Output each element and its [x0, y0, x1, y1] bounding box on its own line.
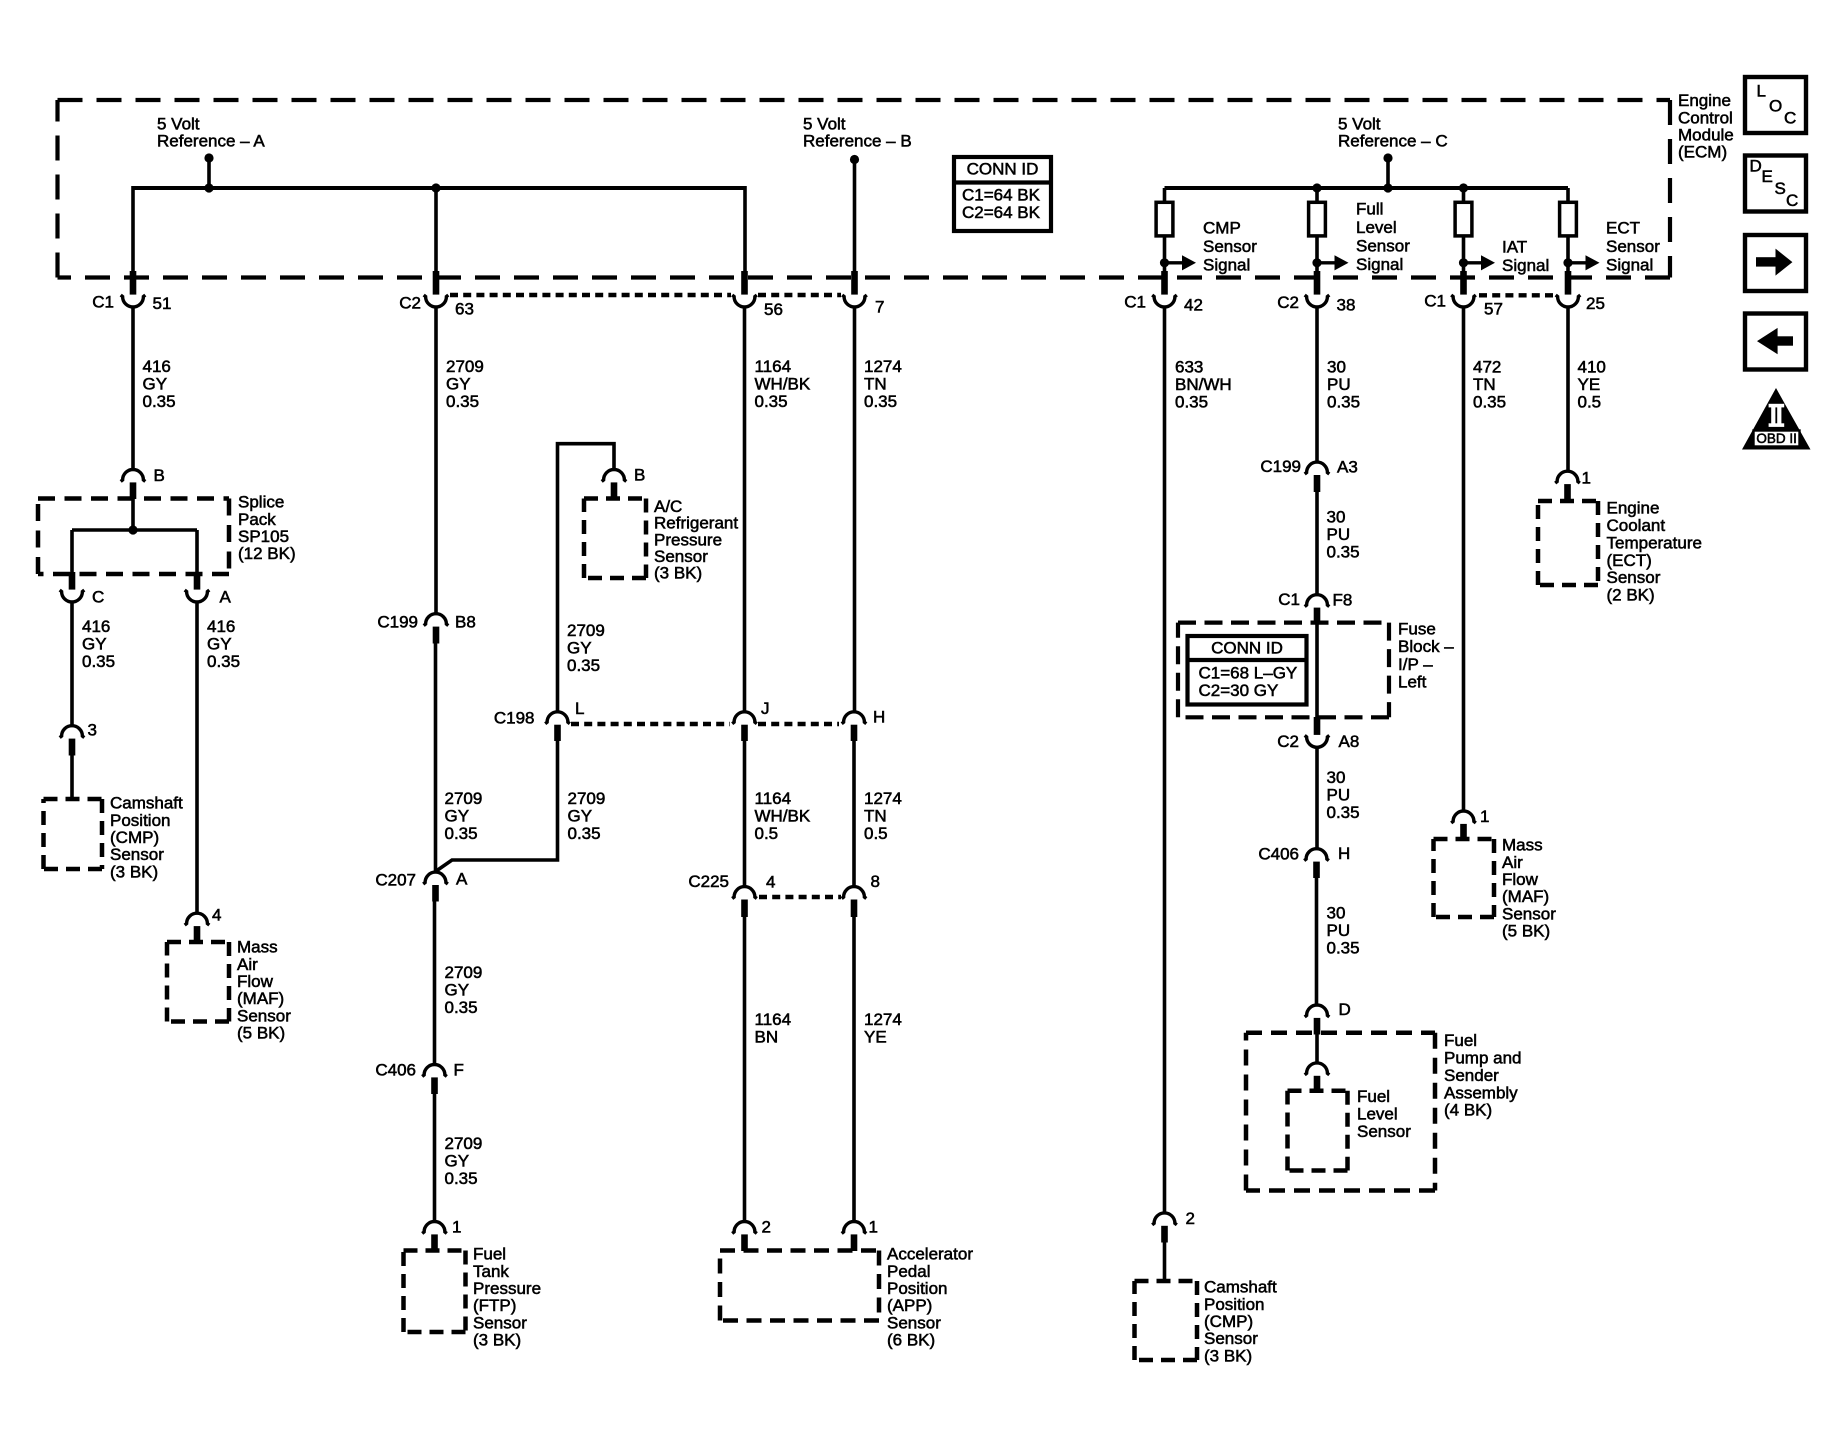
- connector C199 terminal A3: [1305, 462, 1330, 474]
- svg-text:4: 4: [766, 873, 775, 892]
- svg-text:0.35: 0.35: [1175, 393, 1208, 412]
- svg-text:C1: C1: [92, 293, 114, 312]
- svg-text:D: D: [1750, 157, 1762, 176]
- svg-text:Sender: Sender: [1444, 1066, 1499, 1085]
- svg-text:PU: PU: [1327, 525, 1351, 544]
- svg-text:C198: C198: [494, 709, 535, 728]
- Accelerator Pedal Position (APP) Sensor box: [720, 1248, 879, 1253]
- connector C406 terminal F: [422, 1065, 447, 1077]
- svg-text:Signal: Signal: [1606, 256, 1653, 275]
- connector terminal 56: [741, 271, 748, 295]
- svg-text:TN: TN: [864, 375, 887, 394]
- OBD II triangle icon: [1742, 388, 1811, 450]
- connector C225 terminal 8: [842, 887, 867, 899]
- signal tap arrow: [1160, 258, 1169, 267]
- svg-text:PU: PU: [1327, 786, 1351, 805]
- svg-text:(3 BK): (3 BK): [110, 862, 158, 881]
- svg-text:0.35: 0.35: [82, 652, 115, 671]
- wire 1274 YE (C225 8 to APP 1): [852, 916, 856, 1222]
- svg-text:TN: TN: [1473, 375, 1496, 394]
- svg-text:C1: C1: [1124, 293, 1146, 312]
- wire below terminal box: [1163, 236, 1167, 272]
- svg-text:CMP: CMP: [1203, 219, 1241, 238]
- svg-text:H: H: [1338, 844, 1350, 863]
- Fuse Block - I/P - Left dashed box: [1178, 620, 1389, 624]
- svg-text:BN/WH: BN/WH: [1175, 375, 1232, 394]
- connector C198 terminal H: [842, 712, 867, 724]
- svg-text:D: D: [1339, 1000, 1351, 1019]
- wire inside fuel pump assembly: [1315, 1034, 1319, 1064]
- svg-text:Air: Air: [1502, 853, 1523, 872]
- svg-text:GY: GY: [207, 635, 232, 654]
- svg-text:Air: Air: [237, 955, 258, 974]
- svg-text:0.35: 0.35: [446, 392, 479, 411]
- svg-text:Mass: Mass: [237, 938, 278, 957]
- svg-text:GY: GY: [568, 807, 593, 826]
- svg-text:2709: 2709: [446, 357, 484, 376]
- connector terminal 1 (FTP sensor): [422, 1222, 447, 1234]
- ECM pin stub: [1314, 271, 1321, 295]
- svg-text:C406: C406: [375, 1061, 416, 1080]
- svg-text:2709: 2709: [445, 789, 483, 808]
- wire: bus to terminal box x=1463.5: [1462, 188, 1466, 203]
- svg-text:Control: Control: [1678, 108, 1733, 127]
- svg-text:Sensor: Sensor: [1357, 1122, 1411, 1141]
- svg-text:Camshaft: Camshaft: [1204, 1278, 1277, 1297]
- svg-text:2709: 2709: [567, 621, 605, 640]
- svg-text:(MAF): (MAF): [237, 989, 284, 1008]
- svg-text:TN: TN: [864, 807, 887, 826]
- svg-text:(5 BK): (5 BK): [1502, 922, 1550, 941]
- svg-text:Level: Level: [1356, 218, 1397, 237]
- connector C198 terminal L: [545, 712, 570, 724]
- Fuel Pump and Sender Assembly box: [1246, 1031, 1435, 1036]
- svg-text:57: 57: [1484, 300, 1503, 319]
- svg-text:S: S: [1775, 179, 1786, 198]
- wire branch to A/C sensor: [558, 444, 615, 712]
- svg-text:Signal: Signal: [1502, 256, 1549, 275]
- connector C1 terminal F8 (fuse block): [1305, 595, 1330, 607]
- node: 5V ref A stub: [204, 153, 213, 162]
- svg-text:416: 416: [143, 357, 171, 376]
- svg-text:CONN ID: CONN ID: [1211, 639, 1283, 658]
- svg-text:Reference – A: Reference – A: [157, 132, 265, 151]
- CONN ID table for ECM connectors: [954, 157, 1051, 231]
- svg-text:Block –: Block –: [1398, 637, 1454, 656]
- ECM internal terminal box: [1156, 202, 1173, 236]
- connector C2 terminal 63: [433, 271, 440, 295]
- svg-text:(CMP): (CMP): [1204, 1312, 1253, 1331]
- svg-text:Reference – C: Reference – C: [1338, 132, 1448, 151]
- svg-text:F: F: [454, 1061, 464, 1080]
- connector C1 terminal 51: [130, 271, 137, 295]
- Camshaft Position (CMP) Sensor box (left): [44, 797, 103, 802]
- wire: ECM to C2 pin 63: [434, 186, 438, 272]
- svg-text:C406: C406: [1258, 845, 1299, 864]
- connector frame dashes 57-25: [1479, 293, 1553, 297]
- wire 472 TN 0.35 (pin 57 to MAF 1): [1462, 307, 1466, 812]
- svg-text:0.35: 0.35: [1327, 803, 1360, 822]
- connector terminal 3 (CMP sensor): [60, 726, 85, 738]
- svg-text:C2: C2: [1277, 293, 1299, 312]
- svg-text:Sensor: Sensor: [1607, 568, 1661, 587]
- svg-text:PU: PU: [1327, 375, 1351, 394]
- svg-text:C199: C199: [377, 613, 418, 632]
- splice terminal C: [69, 572, 76, 590]
- svg-text:0.35: 0.35: [864, 392, 897, 411]
- junction at C2 column: [431, 183, 440, 192]
- svg-text:0.35: 0.35: [755, 392, 788, 411]
- wire from C198 L down and over to C207 A: [436, 740, 558, 872]
- connector C198 terminal J: [732, 712, 757, 724]
- svg-text:C2=30 GY: C2=30 GY: [1199, 681, 1279, 700]
- signal tap arrow: [1459, 258, 1468, 267]
- svg-text:2: 2: [1186, 1209, 1195, 1228]
- connector terminal 7: [851, 271, 858, 295]
- svg-text:C: C: [92, 588, 104, 607]
- wire: ECM bus corner to pin 56: [743, 186, 747, 272]
- svg-text:A8: A8: [1339, 732, 1360, 751]
- svg-text:0.5: 0.5: [864, 824, 888, 843]
- svg-text:Tank: Tank: [473, 1262, 509, 1281]
- svg-text:0.35: 0.35: [207, 652, 240, 671]
- svg-text:Signal: Signal: [1203, 256, 1250, 275]
- wire 1274 TN 0.5 (H to C225 8): [852, 740, 856, 887]
- Engine Coolant Temperature (ECT) Sensor box: [1538, 499, 1598, 504]
- wire: bus to terminal box x=1164.5: [1163, 188, 1167, 203]
- wire 30 PU 0.35 (pin 38 to C199 A3): [1315, 307, 1319, 463]
- svg-text:A: A: [456, 870, 468, 889]
- splice terminal A: [194, 572, 201, 590]
- svg-text:30: 30: [1327, 508, 1346, 527]
- svg-text:2709: 2709: [445, 1134, 483, 1153]
- svg-text:0.5: 0.5: [755, 824, 779, 843]
- wire 2709 GY 0.35 (C207 A to C406 F): [433, 901, 437, 1065]
- wire (C199 B8 to C207 A): [434, 643, 438, 872]
- svg-text:YE: YE: [1578, 375, 1601, 394]
- LOC icon box: [1745, 77, 1806, 133]
- wire 30 PU 0.35 (A3 to fuse block F8): [1315, 491, 1319, 595]
- svg-text:0.35: 0.35: [568, 824, 601, 843]
- svg-text:GY: GY: [143, 375, 168, 394]
- svg-text:(ECM): (ECM): [1678, 143, 1727, 162]
- svg-text:L: L: [575, 699, 584, 718]
- svg-text:(3 BK): (3 BK): [473, 1331, 521, 1350]
- svg-text:O: O: [1769, 97, 1782, 116]
- svg-text:Full: Full: [1356, 200, 1383, 219]
- svg-text:2709: 2709: [568, 789, 606, 808]
- svg-text:Sensor: Sensor: [887, 1313, 941, 1332]
- svg-text:1: 1: [1480, 807, 1489, 826]
- svg-text:Pump and: Pump and: [1444, 1049, 1522, 1068]
- svg-text:Fuel: Fuel: [1444, 1031, 1477, 1050]
- svg-text:(CMP): (CMP): [110, 828, 159, 847]
- svg-text:YE: YE: [864, 1028, 887, 1047]
- connector C199 terminal B8: [424, 614, 449, 626]
- svg-text:0.35: 0.35: [1473, 393, 1506, 412]
- svg-text:GY: GY: [82, 635, 107, 654]
- svg-text:1274: 1274: [864, 789, 902, 808]
- svg-text:30: 30: [1327, 358, 1346, 377]
- svg-text:Sensor: Sensor: [1204, 1329, 1258, 1348]
- connector terminal 1 (APP sensor): [842, 1222, 867, 1234]
- svg-text:42: 42: [1184, 296, 1203, 315]
- svg-text:1274: 1274: [864, 357, 902, 376]
- wire 1164 WH/BK 0.35 (pin 56 to C198 J): [743, 307, 747, 712]
- wire: bus to terminal box x=1317: [1315, 188, 1319, 203]
- svg-text:633: 633: [1175, 358, 1203, 377]
- wire below terminal box: [1566, 236, 1570, 272]
- svg-text:0.35: 0.35: [143, 392, 176, 411]
- svg-text:A: A: [220, 588, 232, 607]
- wire below terminal box: [1462, 236, 1466, 272]
- svg-text:L: L: [1757, 82, 1766, 101]
- connector terminal D (fuel pump assembly): [1305, 1005, 1330, 1017]
- wire below terminal box: [1315, 236, 1319, 272]
- svg-text:0.35: 0.35: [445, 824, 478, 843]
- svg-text:(3 BK): (3 BK): [1204, 1346, 1252, 1365]
- svg-text:(3 BK): (3 BK): [654, 564, 702, 583]
- wire: ECM to C1 pin 51: [131, 186, 135, 272]
- connector terminal B (splice pack): [121, 470, 146, 482]
- svg-text:ECT: ECT: [1606, 219, 1640, 238]
- connector frame dashes 4-8: [759, 895, 841, 899]
- svg-text:C2: C2: [399, 294, 421, 313]
- ECM internal terminal box: [1309, 202, 1326, 236]
- svg-text:Position: Position: [1204, 1295, 1264, 1314]
- svg-text:C2: C2: [1277, 732, 1299, 751]
- svg-text:(12 BK): (12 BK): [238, 544, 296, 563]
- svg-text:(ECT): (ECT): [1607, 551, 1652, 570]
- fuel level sensor connector: [1305, 1063, 1330, 1075]
- svg-text:Level: Level: [1357, 1105, 1398, 1124]
- svg-text:GY: GY: [445, 981, 470, 1000]
- svg-text:(4 BK): (4 BK): [1444, 1101, 1492, 1120]
- wire 633 BN/WH 0.35 (pin 42 to CMP 2): [1163, 307, 1167, 1214]
- wire 30 PU 0.35 (C406 H to fuel pump D): [1315, 877, 1319, 1006]
- svg-text:Coolant: Coolant: [1607, 516, 1666, 535]
- connector terminal 4 (MAF sensor): [185, 913, 210, 925]
- svg-text:C2=64 BK: C2=64 BK: [962, 203, 1041, 222]
- connector C225 terminal 4: [732, 887, 757, 899]
- svg-text:0.35: 0.35: [445, 998, 478, 1017]
- svg-text:CONN ID: CONN ID: [967, 160, 1039, 179]
- svg-text:2: 2: [762, 1218, 771, 1237]
- svg-text:Position: Position: [110, 811, 170, 830]
- wire: 5V reference C bus: [1165, 186, 1569, 190]
- svg-text:GY: GY: [445, 1152, 470, 1171]
- svg-text:472: 472: [1473, 358, 1501, 377]
- svg-text:Sensor: Sensor: [237, 1006, 291, 1025]
- CONN ID table (fuse block): [1188, 636, 1307, 705]
- svg-text:Assembly: Assembly: [1444, 1083, 1518, 1102]
- svg-text:416: 416: [82, 617, 110, 636]
- svg-text:C207: C207: [375, 871, 416, 890]
- connector C2 terminal A8 (fuse block): [1314, 717, 1321, 735]
- ECM internal terminal box: [1455, 202, 1472, 236]
- Fuel Level Sensor box: [1288, 1088, 1348, 1093]
- svg-text:B: B: [634, 466, 645, 485]
- svg-text:GY: GY: [567, 639, 592, 658]
- connector terminal 1 (ECT sensor): [1555, 471, 1580, 483]
- svg-text:B: B: [154, 466, 165, 485]
- svg-text:Camshaft: Camshaft: [110, 794, 183, 813]
- svg-text:J: J: [761, 699, 770, 718]
- svg-text:Pack: Pack: [238, 510, 276, 529]
- svg-text:0.35: 0.35: [1327, 393, 1360, 412]
- svg-text:Sensor: Sensor: [1203, 237, 1257, 256]
- svg-text:51: 51: [153, 294, 172, 313]
- svg-text:Left: Left: [1398, 672, 1427, 691]
- wire 416 GY 0.35 (pin 51 to splice B): [131, 307, 135, 470]
- wire 410 YE 0.5 (pin 25 to ECT 1): [1566, 307, 1570, 472]
- connector terminal 2 (CMP sensor right): [1152, 1213, 1177, 1225]
- svg-text:Mass: Mass: [1502, 836, 1543, 855]
- ECM internal terminal box: [1560, 202, 1577, 236]
- svg-text:Signal: Signal: [1356, 255, 1403, 274]
- wire 416 GY 0.35 (splice C to CMP 3): [70, 602, 74, 726]
- svg-text:Sensor: Sensor: [1502, 904, 1556, 923]
- svg-text:Engine: Engine: [1678, 91, 1731, 110]
- svg-text:C1=64 BK: C1=64 BK: [962, 186, 1041, 205]
- wire: bus to terminal box x=1568: [1566, 188, 1570, 203]
- Fuel Tank Pressure (FTP) Sensor box: [404, 1248, 466, 1253]
- svg-text:Fuel: Fuel: [1357, 1087, 1390, 1106]
- ECM pin stub: [1565, 271, 1572, 295]
- svg-text:0.35: 0.35: [445, 1169, 478, 1188]
- svg-text:C1: C1: [1278, 590, 1300, 609]
- svg-text:OBD II: OBD II: [1756, 431, 1797, 446]
- connector terminal 2 (APP sensor): [732, 1222, 757, 1234]
- wire 2709 GY 0.35 (C406 F to FTP 1): [433, 1093, 437, 1222]
- svg-text:56: 56: [764, 300, 783, 319]
- svg-text:0.35: 0.35: [1327, 939, 1360, 958]
- svg-text:1164: 1164: [755, 1010, 792, 1029]
- wire 416 GY 0.35 (splice A to MAF 4): [195, 602, 199, 913]
- ECM pin stub: [1460, 271, 1467, 295]
- Splice Pack SP105 box: [38, 496, 229, 501]
- svg-text:WH/BK: WH/BK: [755, 807, 811, 826]
- svg-text:30: 30: [1327, 768, 1346, 787]
- svg-text:Sensor: Sensor: [1606, 237, 1660, 256]
- svg-text:410: 410: [1578, 358, 1606, 377]
- svg-text:(5 BK): (5 BK): [237, 1024, 285, 1043]
- svg-text:Pressure: Pressure: [473, 1279, 541, 1298]
- svg-text:Module: Module: [1678, 126, 1734, 145]
- svg-text:IAT: IAT: [1502, 238, 1527, 257]
- svg-text:4: 4: [212, 906, 221, 925]
- svg-text:B8: B8: [455, 613, 476, 632]
- connector frame dashes 63-56-7: [450, 293, 731, 297]
- svg-text:(2 BK): (2 BK): [1607, 586, 1655, 605]
- svg-text:1: 1: [869, 1218, 878, 1237]
- connector C406 terminal H: [1304, 849, 1329, 861]
- wire through fuse block: [1315, 623, 1319, 718]
- svg-text:Fuse: Fuse: [1398, 620, 1436, 639]
- svg-text:GY: GY: [446, 375, 471, 394]
- svg-text:Flow: Flow: [1502, 870, 1539, 889]
- splice internal wires: [131, 499, 135, 530]
- connector terminal B (A/C sensor): [602, 469, 627, 481]
- svg-text:BN: BN: [755, 1028, 779, 1047]
- svg-text:(APP): (APP): [887, 1296, 932, 1315]
- svg-text:I/P –: I/P –: [1398, 655, 1433, 674]
- svg-text:7: 7: [875, 298, 884, 317]
- svg-text:Sensor: Sensor: [473, 1313, 527, 1332]
- svg-text:Sensor: Sensor: [110, 845, 164, 864]
- svg-text:Pedal: Pedal: [887, 1262, 930, 1281]
- svg-text:C225: C225: [688, 872, 729, 891]
- wire 1164 BN (C225 4 to APP 2): [743, 916, 747, 1222]
- svg-text:38: 38: [1337, 296, 1356, 315]
- Engine Control Module (ECM) dashed box: [58, 98, 1671, 102]
- svg-text:F8: F8: [1333, 591, 1353, 610]
- svg-text:0.35: 0.35: [1327, 543, 1360, 562]
- svg-text:Flow: Flow: [237, 972, 274, 991]
- Camshaft Position (CMP) Sensor box (right): [1135, 1279, 1198, 1284]
- ECM pin stub: [1161, 271, 1168, 295]
- svg-text:A3: A3: [1337, 458, 1358, 477]
- svg-text:1274: 1274: [864, 1010, 902, 1029]
- svg-text:GY: GY: [445, 807, 470, 826]
- svg-text:SP105: SP105: [238, 527, 289, 546]
- wire 2709 GY 0.35 (pin 63 to C199 B8): [434, 307, 438, 614]
- svg-text:0.35: 0.35: [567, 656, 600, 675]
- svg-text:(FTP): (FTP): [473, 1296, 516, 1315]
- svg-text:3: 3: [88, 721, 97, 740]
- svg-text:Splice: Splice: [238, 493, 284, 512]
- svg-text:C: C: [1786, 191, 1798, 210]
- wire 1274 TN 0.35 (pin 7 to C198 H): [853, 307, 857, 712]
- svg-text:C: C: [1784, 109, 1796, 128]
- connector frame dashes L-J-H: [571, 722, 730, 726]
- svg-text:WH/BK: WH/BK: [755, 375, 811, 394]
- svg-text:30: 30: [1327, 904, 1346, 923]
- DESC icon box: [1745, 156, 1806, 212]
- node: 5V ref B stub: [850, 155, 859, 164]
- connector C207 terminal A: [423, 872, 448, 884]
- svg-text:1: 1: [1582, 469, 1591, 488]
- back arrow icon box: [1745, 314, 1806, 370]
- svg-text:Sensor: Sensor: [1356, 237, 1410, 256]
- svg-text:(MAF): (MAF): [1502, 887, 1549, 906]
- Mass Air Flow (MAF) Sensor box (right): [1434, 837, 1495, 842]
- svg-text:Fuel: Fuel: [473, 1245, 506, 1264]
- svg-text:Position: Position: [887, 1279, 947, 1298]
- svg-text:1: 1: [452, 1218, 461, 1237]
- svg-text:C199: C199: [1260, 457, 1301, 476]
- svg-text:0.5: 0.5: [1578, 393, 1602, 412]
- svg-text:H: H: [873, 708, 885, 727]
- svg-text:Engine: Engine: [1607, 499, 1660, 518]
- wire 1164 WH/BK 0.5 (J to C225 4): [743, 740, 747, 887]
- node: 5V ref C stub: [1383, 153, 1392, 162]
- svg-text:1164: 1164: [755, 789, 792, 808]
- svg-text:Reference – B: Reference – B: [803, 132, 912, 151]
- svg-text:E: E: [1762, 167, 1773, 186]
- svg-text:C1=68 L–GY: C1=68 L–GY: [1199, 664, 1298, 683]
- svg-text:Temperature: Temperature: [1607, 533, 1702, 552]
- svg-text:1164: 1164: [755, 357, 792, 376]
- svg-text:25: 25: [1586, 294, 1605, 313]
- wire 30 PU 0.35 (A8 to C406 H): [1315, 747, 1319, 849]
- svg-text:63: 63: [455, 300, 474, 319]
- A/C Refrigerant Pressure Sensor box: [584, 496, 646, 501]
- svg-text:PU: PU: [1327, 921, 1351, 940]
- signal tap arrow: [1312, 258, 1321, 267]
- svg-text:2709: 2709: [445, 963, 483, 982]
- svg-text:(6 BK): (6 BK): [887, 1331, 935, 1350]
